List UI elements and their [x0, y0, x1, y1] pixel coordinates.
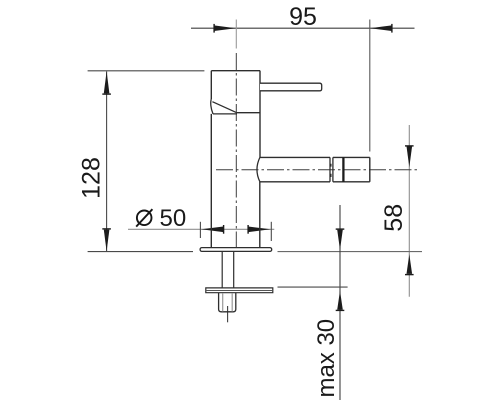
dimension 58 down arrow: [405, 145, 414, 167]
dimension D50 left arrow: [201, 225, 224, 234]
handle block left edge: [210, 71, 212, 99]
dimension max30 down arrow: [336, 228, 345, 250]
spout ring line 1: [329, 157, 331, 181]
dimension D50 left extension tick: [199, 222, 201, 238]
dimension 128 down arrow: [102, 228, 111, 251]
body right edge below spout: [259, 182, 261, 248]
spout junction arc: [257, 157, 260, 181]
axis tick below nut: [227, 306, 229, 322]
handle skirt bottom edge: [213, 113, 237, 115]
vertical centerline of faucet body: [235, 53, 237, 248]
svg-text:58: 58: [380, 204, 408, 232]
countertop extension line right: [278, 251, 423, 253]
spout top edge: [260, 156, 330, 158]
horizontal centerline of spout: [216, 169, 420, 171]
spout ring ticks: [330, 164, 332, 177]
extension line left of 95 (grey): [235, 20, 237, 49]
dimension max30 line: [339, 205, 341, 400]
dimension 95 right arrow: [370, 24, 393, 33]
shank right line: [233, 252, 235, 288]
svg-text:50: 50: [160, 205, 187, 232]
body top edge right half: [237, 112, 261, 114]
dimension D50 right arrow: [247, 225, 270, 234]
flange extension line: [278, 286, 348, 288]
dimension max30 up arrow: [336, 291, 345, 311]
spout ring line 2: [332, 157, 334, 181]
dimension 58 up arrow: [405, 254, 414, 275]
mounting flange: [206, 288, 273, 293]
handle and body right edge: [259, 71, 261, 158]
handle skirt left arc: [211, 99, 213, 114]
dimension D50 line (grey): [128, 228, 274, 230]
dimension 128 bottom extension line: [88, 251, 193, 253]
flange mid line: [206, 290, 273, 292]
dimension 128 top extension line: [88, 70, 205, 72]
aerator thick joint line: [342, 157, 344, 181]
dimension 95 left arrow: [213, 24, 235, 33]
dimension 58 line (grey): [408, 125, 410, 297]
dimension 128 up arrow: [102, 71, 111, 95]
lever bar: [260, 83, 322, 91]
diameter symbol: [136, 209, 152, 226]
handle block top: [211, 70, 260, 72]
shank left line: [221, 252, 223, 288]
handle diagonal lever line: [212, 102, 236, 113]
base plate: [200, 248, 272, 252]
body left edge: [210, 114, 212, 248]
nut outline: [219, 293, 236, 312]
spout end edge: [369, 157, 371, 181]
dimension 95 line: [191, 27, 415, 29]
svg-text:128: 128: [78, 157, 106, 199]
aerator section top: [333, 156, 370, 158]
svg-text:max 30: max 30: [313, 319, 340, 398]
extension line right of 95 down to spout: [369, 20, 371, 152]
nut hex inner lines: [223, 293, 233, 312]
dimension 128 line: [106, 72, 108, 252]
spout bottom edge: [260, 181, 330, 183]
dimension D50 right extension tick: [270, 222, 272, 241]
svg-text:95: 95: [289, 3, 317, 31]
aerator section bottom: [333, 181, 370, 183]
